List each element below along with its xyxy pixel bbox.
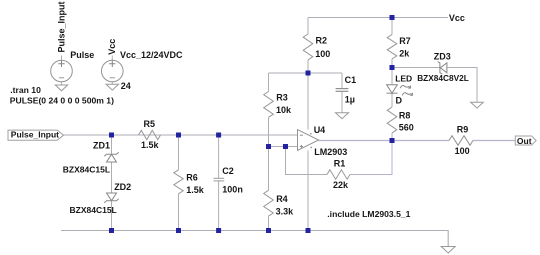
wire ZD1 top stub <box>111 135 113 154</box>
svg-text:Pulse: Pulse <box>70 50 94 60</box>
wire R3 top stub <box>268 73 270 92</box>
wire ZD1 to ZD2 <box>111 162 113 193</box>
svg-text:Vcc: Vcc <box>449 13 465 23</box>
svg-text:Pulse_Input: Pulse_Input <box>57 1 67 52</box>
resistor R5 (horizontal) <box>139 130 161 139</box>
wire ZD3 rail left <box>392 67 440 69</box>
node junction (178.5,135) <box>176 133 181 138</box>
wire C1 vertical top <box>341 73 343 89</box>
zener diode ZD3 (pointing left) <box>438 62 447 75</box>
resistor R7 (vertical) <box>387 35 397 59</box>
wire R2 top stub <box>307 18 309 35</box>
node junction (218.6,135) <box>216 133 221 138</box>
svg-text:10k: 10k <box>276 105 292 115</box>
wire C1 vertical bottom <box>341 92 343 113</box>
wire top Vcc rail <box>308 17 448 19</box>
svg-text:R7: R7 <box>399 36 411 46</box>
zener diode ZD1 (pointing up) <box>104 152 118 162</box>
svg-text:3.3k: 3.3k <box>276 207 295 217</box>
ground below C1 <box>336 113 349 119</box>
svg-text:2k: 2k <box>399 48 410 58</box>
svg-text:R1: R1 <box>334 158 346 168</box>
svg-text:C1: C1 <box>345 75 357 85</box>
capacitor C1 <box>336 89 349 92</box>
svg-text:BZX84C8V2L: BZX84C8V2L <box>417 73 469 83</box>
wire ZD3 rail right and down to ground <box>447 68 477 103</box>
voltage source V1 Pulse circle <box>51 60 73 82</box>
svg-text:1.5k: 1.5k <box>141 140 160 150</box>
node junction (308,73) <box>306 71 311 76</box>
node junction (178.5,230) <box>176 228 181 233</box>
net flag Out <box>515 136 536 145</box>
svg-text:100n: 100n <box>222 185 243 195</box>
svg-text:LM2903: LM2903 <box>314 147 347 157</box>
resistor R1 (horizontal feedback) <box>327 170 350 179</box>
svg-text:ZD1: ZD1 <box>93 140 110 150</box>
wire Pulse source bottom stub <box>61 82 63 85</box>
resistor R4 (vertical) <box>264 190 274 216</box>
svg-text:ZD3: ZD3 <box>434 51 451 61</box>
node junction (268.5,230) <box>266 228 271 233</box>
svg-text:22k: 22k <box>333 180 349 190</box>
ground below Vcc source <box>106 84 118 90</box>
svg-text:R8: R8 <box>399 111 411 121</box>
resistor R9 (horizontal) <box>449 136 473 146</box>
LED light arrows <box>400 86 412 96</box>
svg-text:Out: Out <box>517 136 532 146</box>
node junction (285.5,146.5) <box>283 144 288 149</box>
wire R7 bottom stub <box>391 59 393 68</box>
wire Vcc source bottom stub <box>111 82 113 85</box>
net flag Pulse_Input <box>8 130 64 140</box>
svg-text:Vcc_12/24VDC: Vcc_12/24VDC <box>120 50 183 60</box>
wire R8 bottom stub <box>391 133 393 141</box>
svg-text:R4: R4 <box>276 194 288 204</box>
svg-text:BZX84C15L: BZX84C15L <box>63 164 110 174</box>
wire LED top stub <box>391 68 393 85</box>
svg-text:100: 100 <box>315 49 330 59</box>
wire C2 bottom stub <box>218 181 220 231</box>
svg-text:100: 100 <box>455 146 470 156</box>
node junction (111,135) <box>109 133 114 138</box>
ground below Pulse source <box>55 85 67 91</box>
svg-text:LED: LED <box>395 74 412 84</box>
svg-text:ZD2: ZD2 <box>114 182 131 192</box>
ground bottom right <box>441 247 455 254</box>
svg-text:R3: R3 <box>276 93 288 103</box>
node junction (308,230) <box>306 228 311 233</box>
node junction (218.6,230) <box>216 228 221 233</box>
wire plus input <box>269 146 298 148</box>
svg-text:24: 24 <box>121 81 131 91</box>
svg-text:R6: R6 <box>186 172 198 182</box>
LED D (pointing down) <box>387 85 398 94</box>
svg-text:1.5k: 1.5k <box>186 185 205 195</box>
wire op-amp V+ pin <box>307 73 309 130</box>
wire R7 top stub <box>391 18 393 35</box>
wire C2 top stub <box>218 135 220 178</box>
wire R4 top stub <box>268 147 270 191</box>
svg-text:560: 560 <box>399 122 414 132</box>
wire LED to R8 <box>391 93 393 107</box>
wire feedback right segment <box>350 141 392 175</box>
resistor R8 (vertical) <box>387 107 397 133</box>
resistor R2 (vertical) <box>303 34 313 60</box>
wire op-amp V- pin <box>307 151 309 231</box>
wire R3 bottom stub <box>268 118 270 147</box>
voltage source V2 Vcc circle <box>102 60 124 82</box>
wire feedback left vertical <box>286 147 328 175</box>
wire R4 bottom stub <box>268 216 270 230</box>
svg-text:BZX84C15L: BZX84C15L <box>70 205 117 215</box>
svg-text:R2: R2 <box>316 36 328 46</box>
node junction (392,17.5) <box>390 15 395 20</box>
svg-text:.include LM2903.5_1: .include LM2903.5_1 <box>327 209 410 219</box>
wire output rail right segment to Out <box>473 140 516 142</box>
ground below ZD3 <box>471 102 484 108</box>
wire output rail left segment <box>319 140 450 142</box>
svg-text:Pulse_Input: Pulse_Input <box>11 130 59 140</box>
node junction (268.5,146.5) <box>266 144 271 149</box>
svg-text:Vcc: Vcc <box>107 39 117 55</box>
capacitor C2 <box>214 178 225 181</box>
svg-text:R5: R5 <box>144 119 156 129</box>
svg-text:U4: U4 <box>314 125 326 135</box>
wire R6 bottom stub <box>178 194 180 231</box>
svg-text:R9: R9 <box>457 125 469 135</box>
node junction (392,140.5) <box>390 138 395 143</box>
wire bottom ground rail <box>61 231 448 247</box>
node junction (111,230) <box>109 228 114 233</box>
zener diode ZD2 (pointing down) <box>104 193 118 203</box>
resistor R6 (vertical) <box>174 170 183 194</box>
svg-text:PULSE(0 24 0 0 0 500m 1): PULSE(0 24 0 0 0 500m 1) <box>10 95 114 105</box>
wire Pulse source top stub <box>61 56 63 61</box>
wire R2 bottom stub <box>307 60 309 73</box>
wire Vcc source top stub <box>111 56 113 61</box>
wire ZD2 bottom stub <box>111 201 113 231</box>
wire input rail y135 <box>64 134 298 136</box>
wire R6 top stub <box>178 135 180 170</box>
op-amp U4 LM2903 <box>298 130 319 151</box>
wire node R2/C1 horizontal <box>269 72 343 74</box>
resistor R3 (vertical) <box>264 92 274 118</box>
svg-text:D: D <box>396 96 403 106</box>
svg-text:.tran 10: .tran 10 <box>10 85 41 95</box>
svg-text:C2: C2 <box>222 166 234 176</box>
node junction (392,67.5) <box>390 65 395 70</box>
svg-text:1µ: 1µ <box>345 94 355 104</box>
